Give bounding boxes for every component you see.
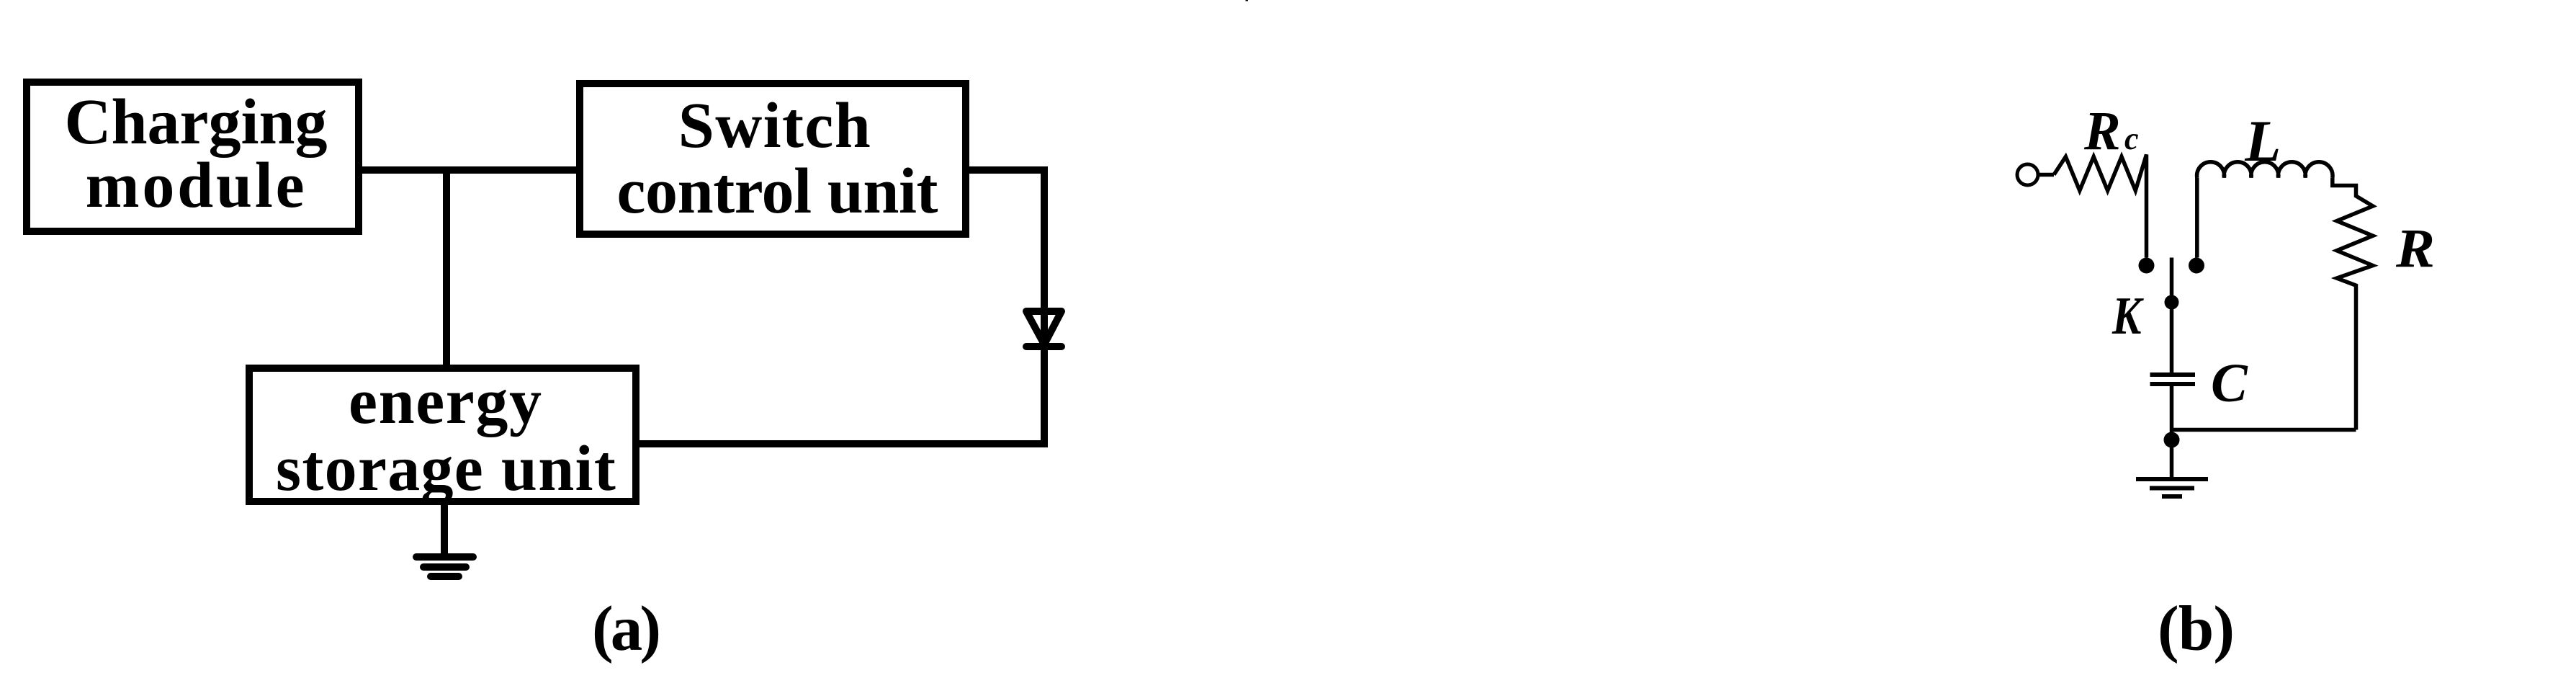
svg-text:L: L <box>2244 108 2281 174</box>
svg-text:module: module <box>86 150 308 221</box>
svg-text:c: c <box>2124 121 2139 156</box>
svg-text:R: R <box>2083 101 2121 161</box>
svg-text:R: R <box>2395 218 2435 279</box>
svg-text:K: K <box>2111 287 2144 346</box>
svg-text:C: C <box>2211 353 2248 414</box>
svg-text:energy: energy <box>349 366 543 437</box>
svg-text:(b): (b) <box>2158 594 2235 664</box>
svg-text:control unit: control unit <box>617 156 938 227</box>
svg-text:(a): (a) <box>592 594 661 664</box>
svg-text:Charging: Charging <box>64 86 327 158</box>
svg-text:storage unit: storage unit <box>276 433 616 504</box>
svg-text:Switch: Switch <box>678 90 871 161</box>
